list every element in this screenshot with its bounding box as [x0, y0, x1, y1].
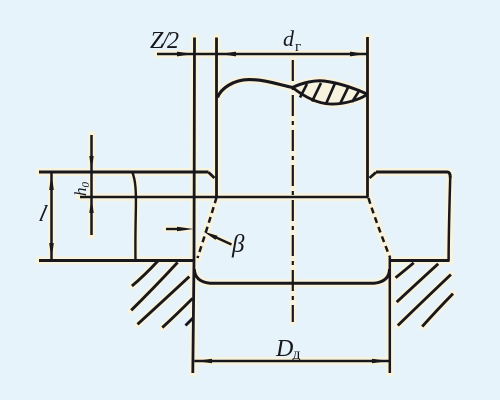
rod break arc (dome) [218, 80, 293, 98]
right plate edge [449, 178, 451, 261]
plate top surface left [39, 171, 209, 174]
arrowhead D_д right [372, 359, 389, 364]
dashed flare line left (angle β) [198, 198, 217, 259]
arrowhead Z/2 left (tip at hole wall) [177, 52, 195, 57]
dimension line D_д [195, 360, 390, 363]
dimension line (Z/2 and d_г) [157, 53, 367, 56]
plate top surface right [376, 172, 450, 178]
chamfer left (rod to plate top) [209, 172, 215, 178]
arrowhead β leader [204, 232, 218, 240]
rod end face line (depth h) [80, 196, 369, 199]
rivet rod right edge / extension line [366, 37, 369, 197]
β leader line [214, 237, 232, 245]
lens hatch strokes [300, 83, 360, 104]
rod break lens bottom curve [293, 88, 368, 105]
arrowhead D_д left [195, 359, 212, 364]
dimension line l [50, 173, 53, 261]
rivet rod left edge / extension line [215, 38, 218, 198]
arrowhead h lower (outside, pointing up) [89, 197, 93, 213]
arrowhead l bottom [49, 243, 54, 260]
β arrow tail (left pointer) [166, 228, 178, 230]
hole wall left / extension line for Z/2 and D_д [193, 38, 195, 374]
dimension line h [90, 135, 93, 235]
rod break lens top curve [293, 81, 368, 94]
closing head outline [194, 269, 389, 283]
left die hatching [131, 261, 193, 328]
arrowhead h upper (outside, pointing down) [89, 156, 93, 172]
right hole wall / extension line for D_д [389, 258, 392, 373]
arrowhead pointer to hole wall [177, 227, 194, 231]
right die hatching [396, 263, 453, 327]
svg-text:Z/2: Z/2 [150, 28, 179, 54]
paper halo (cream glow around inked figure) [39, 37, 453, 373]
arrowhead l top [49, 173, 54, 190]
plate bottom surface right [390, 259, 450, 262]
plate bottom surface left [39, 259, 195, 262]
chamfer right (rod to plate top) [370, 172, 377, 178]
dashed flare line right [369, 198, 391, 258]
left plate break line [132, 172, 136, 261]
arrowhead d_г left [219, 52, 236, 57]
svg-text:β: β [231, 231, 245, 258]
arrowhead d_г right [350, 52, 367, 57]
centre line (dash-dot) [292, 60, 294, 322]
